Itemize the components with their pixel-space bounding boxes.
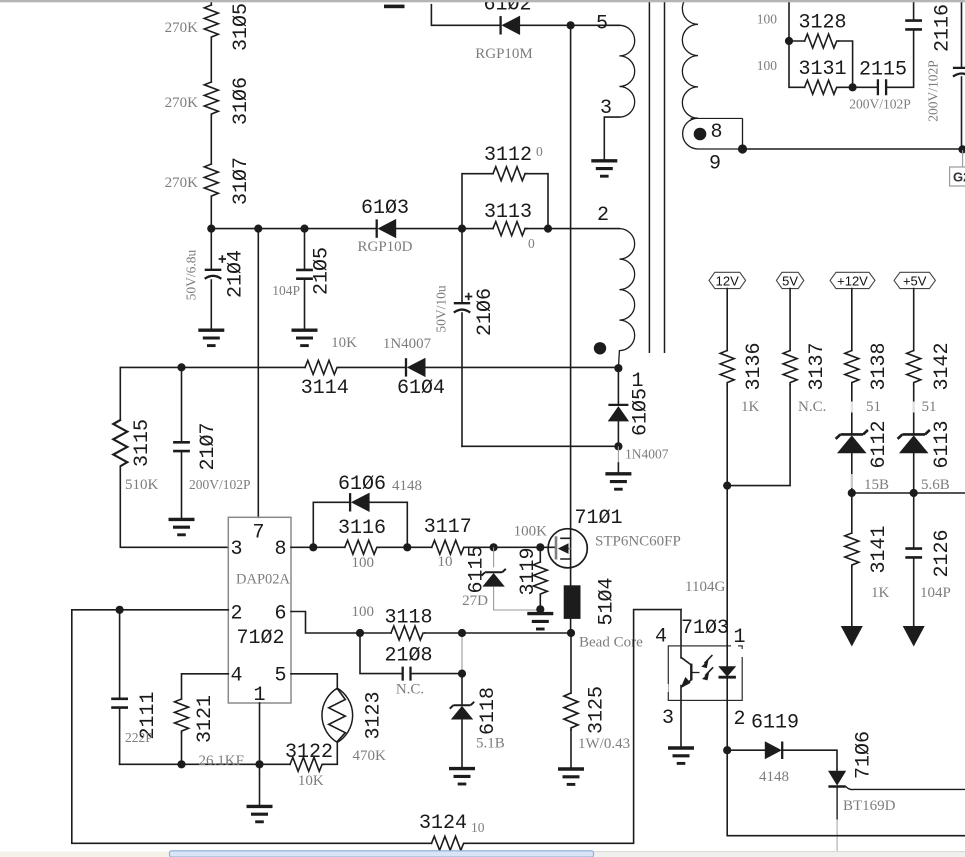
wire: pin2 net long <box>72 610 681 844</box>
svg-text:3131: 3131 <box>798 58 846 81</box>
svg-text:6118: 6118 <box>477 687 500 735</box>
svg-text:21Ø4: 21Ø4 <box>225 250 248 298</box>
resistor R3142 <box>913 289 915 434</box>
node dot <box>309 543 317 551</box>
svg-text:222P: 222P <box>125 730 153 745</box>
wire: 2106 bottom row <box>462 445 618 447</box>
svg-text:2115: 2115 <box>859 59 907 82</box>
svg-text:0: 0 <box>536 144 543 159</box>
ground <box>558 769 584 784</box>
svg-text:100: 100 <box>757 12 778 27</box>
svg-text:0: 0 <box>528 236 535 251</box>
node dot <box>723 746 731 754</box>
zener D6115 <box>493 547 495 567</box>
svg-text:3117: 3117 <box>424 516 472 539</box>
resistor R3122 <box>290 757 324 771</box>
resistor R3115 <box>120 367 228 547</box>
svg-text:21Ø7: 21Ø7 <box>197 422 220 470</box>
node dot <box>614 442 622 450</box>
wire: drain vertical <box>570 25 572 538</box>
svg-text:61Ø4: 61Ø4 <box>397 377 445 400</box>
svg-text:71Ø1: 71Ø1 <box>575 507 623 530</box>
node dot <box>490 543 498 551</box>
resistor R3105 <box>204 5 218 39</box>
svg-text:4148: 4148 <box>392 478 422 494</box>
svg-text:7: 7 <box>253 522 265 545</box>
diode D6102 <box>501 16 520 35</box>
svg-text:1K: 1K <box>871 585 890 601</box>
svg-text:STP6NC60FP: STP6NC60FP <box>595 534 681 550</box>
node dot <box>910 489 918 497</box>
wire gap artifact +5V <box>913 402 915 413</box>
resistor R3116 <box>345 540 379 554</box>
diode D6105 <box>617 368 619 404</box>
resistor R3119 <box>539 547 541 609</box>
ground <box>668 748 694 763</box>
zener D6118 <box>461 674 463 705</box>
wire: bottom row of 7102 <box>120 742 338 764</box>
node dot <box>356 629 364 637</box>
scrollbar blue bar <box>170 851 594 857</box>
resistor R3136 <box>726 289 728 486</box>
node dot <box>723 482 731 490</box>
net flag 12V <box>709 272 746 288</box>
svg-text:3116: 3116 <box>338 517 386 540</box>
svg-text:61Ø3: 61Ø3 <box>361 197 409 220</box>
svg-text:2126: 2126 <box>931 529 954 577</box>
LED of optocoupler <box>726 486 728 667</box>
svg-text:270K: 270K <box>165 175 199 191</box>
net label G2 <box>962 150 964 167</box>
resistor R3131 <box>789 41 853 87</box>
diode D6104 <box>406 358 426 377</box>
svg-text:200V/102P: 200V/102P <box>849 97 911 112</box>
svg-text:270K: 270K <box>165 20 199 36</box>
svg-text:61Ø2: 61Ø2 <box>483 0 531 17</box>
wire: snubber network left vertical <box>788 0 790 41</box>
zener D6112 <box>836 430 868 453</box>
svg-text:3114: 3114 <box>301 377 349 400</box>
wire: 6102 snubber net <box>431 5 619 26</box>
svg-text:2: 2 <box>597 204 609 227</box>
wire: pin 8 tap <box>691 117 743 119</box>
wire: 15B row <box>852 492 965 494</box>
svg-text:510K: 510K <box>125 477 159 493</box>
net flag 5V <box>776 272 803 288</box>
svg-text:5: 5 <box>596 13 608 36</box>
capacitor C2107 <box>181 367 183 441</box>
svg-text:1N4007: 1N4007 <box>383 336 432 352</box>
svg-text:470K: 470K <box>353 748 387 764</box>
node dot <box>207 225 215 233</box>
svg-text:104P: 104P <box>920 585 951 601</box>
node dot <box>458 629 466 637</box>
svg-text:21Ø6: 21Ø6 <box>474 288 497 336</box>
svg-text:21Ø8: 21Ø8 <box>384 645 432 668</box>
wire: resistor chain vertical <box>210 0 212 229</box>
svg-text:RGP10D: RGP10D <box>357 239 412 255</box>
resistor R3125 <box>570 633 572 768</box>
node dot <box>177 760 185 768</box>
node dot <box>785 37 793 45</box>
wire: pin7 vertical <box>257 229 259 518</box>
svg-text:21Ø5: 21Ø5 <box>311 247 334 295</box>
node dot <box>848 489 856 497</box>
off-page arrow <box>841 626 863 647</box>
ground <box>449 769 475 784</box>
diode D6119 <box>727 749 765 751</box>
capacitor C2106 electrolytic <box>461 229 463 303</box>
svg-text:200V/102P: 200V/102P <box>189 477 251 492</box>
diode D6103 <box>377 219 397 238</box>
ground <box>292 330 318 345</box>
light arrows <box>704 655 712 663</box>
transformer primary winding top (pins 5-3) <box>619 25 634 117</box>
svg-text:50V/6.8u: 50V/6.8u <box>184 249 199 300</box>
capacitor C2116 <box>905 21 922 30</box>
wire: top junction row <box>211 228 619 230</box>
svg-text:15B: 15B <box>864 477 889 493</box>
svg-text:71Ø2: 71Ø2 <box>237 627 285 650</box>
wire: 3114 row <box>120 366 618 368</box>
zener D6113 <box>898 430 930 453</box>
svg-text:27D: 27D <box>462 593 488 609</box>
capacitor C2108 <box>360 633 462 674</box>
svg-text:51: 51 <box>922 399 937 415</box>
ground <box>527 614 553 629</box>
svg-text:200V/102P: 200V/102P <box>926 60 941 122</box>
transistor Q7101 MOSFET <box>548 529 587 568</box>
svg-text:9: 9 <box>709 153 721 176</box>
node dot <box>458 225 466 233</box>
svg-text:3: 3 <box>231 538 243 561</box>
transformer primary winding bottom (pins 2-1) <box>618 229 634 369</box>
svg-text:61Ø6: 61Ø6 <box>338 473 386 496</box>
diode D6106 <box>350 493 370 512</box>
svg-text:51Ø4: 51Ø4 <box>596 577 619 625</box>
svg-text:100: 100 <box>351 555 374 571</box>
svg-text:3: 3 <box>662 707 674 730</box>
svg-text:71Ø3: 71Ø3 <box>681 617 729 640</box>
ground <box>591 161 617 176</box>
resistor R3128 <box>789 41 853 87</box>
svg-text:31Ø6: 31Ø6 <box>230 77 253 125</box>
resistor R3121 <box>182 674 229 765</box>
resistor R3114 <box>305 360 339 374</box>
wire: source <box>570 559 572 585</box>
svg-text:3: 3 <box>600 97 612 120</box>
svg-text:6119: 6119 <box>751 712 799 735</box>
svg-text:26.1KF: 26.1KF <box>199 753 244 769</box>
capacitor C2105 <box>304 229 306 269</box>
svg-text:2: 2 <box>231 603 243 626</box>
node dot <box>536 605 544 613</box>
node dot <box>567 629 575 637</box>
polarity dot <box>594 342 606 354</box>
svg-text:G2: G2 <box>953 170 965 185</box>
node dot <box>614 364 622 372</box>
svg-text:3113: 3113 <box>484 201 532 224</box>
svg-text:3124: 3124 <box>419 812 467 835</box>
svg-text:3121: 3121 <box>194 695 217 743</box>
ferrite bead L5104 <box>564 585 581 619</box>
svg-text:DAP02A: DAP02A <box>236 572 291 588</box>
svg-text:1104G: 1104G <box>685 579 725 595</box>
capacitor C2126 <box>913 493 915 548</box>
svg-text:3118: 3118 <box>384 607 432 630</box>
svg-text:31Ø5: 31Ø5 <box>230 3 253 51</box>
resistor R3138 <box>851 289 853 434</box>
svg-text:2: 2 <box>734 708 746 731</box>
wire: bottom right row <box>727 750 965 836</box>
svg-text:1W/0.43: 1W/0.43 <box>578 736 630 752</box>
svg-text:12V: 12V <box>716 273 739 288</box>
svg-text:6115: 6115 <box>466 545 489 593</box>
svg-text:8: 8 <box>711 121 723 144</box>
svg-text:104P: 104P <box>272 283 300 298</box>
wire: 6106 bypass loop <box>313 502 407 547</box>
resistor R3107 <box>204 164 218 198</box>
capacitor C2117 electrolytic at edge <box>961 0 963 67</box>
resistor R3117 <box>432 540 466 554</box>
wire: pin1 ground <box>259 703 261 805</box>
svg-text:10K: 10K <box>298 773 324 789</box>
svg-text:8: 8 <box>275 538 287 561</box>
svg-text:3115: 3115 <box>131 419 154 467</box>
svg-text:3123: 3123 <box>363 691 386 739</box>
capacitor C2115 <box>853 30 914 88</box>
svg-text:10K: 10K <box>331 335 357 351</box>
svg-text:3128: 3128 <box>798 12 846 35</box>
svg-text:270K: 270K <box>165 95 199 111</box>
svg-text:51: 51 <box>866 399 881 415</box>
net flag +12V <box>830 272 875 288</box>
svg-text:10: 10 <box>438 554 453 570</box>
node dot <box>177 363 185 371</box>
svg-text:BT169D: BT169D <box>843 798 896 814</box>
optocoupler U7103 <box>680 610 682 658</box>
svg-text:6112: 6112 <box>868 420 891 468</box>
thermistor R3123 <box>291 674 337 689</box>
svg-text:3137: 3137 <box>806 342 829 390</box>
node dot <box>567 21 575 29</box>
wire: pin6 net <box>291 612 571 634</box>
svg-text:6: 6 <box>275 603 287 626</box>
node dot <box>255 760 263 768</box>
node dot <box>958 145 965 153</box>
svg-text:3122: 3122 <box>285 741 333 764</box>
capacitor C2111 <box>119 610 121 698</box>
wire: 3112 bypass loop <box>462 174 548 229</box>
node dot <box>254 225 262 233</box>
svg-text:5: 5 <box>275 665 287 688</box>
svg-text:5.6B: 5.6B <box>921 477 950 493</box>
node dot <box>403 543 411 551</box>
svg-text:1K: 1K <box>741 399 760 415</box>
node dot <box>544 225 552 233</box>
minus dash label <box>384 5 405 9</box>
resistor R3106 <box>204 82 218 116</box>
svg-text:+12V: +12V <box>837 273 868 288</box>
pin 3 wire <box>604 117 619 160</box>
bottom window strip <box>0 852 965 857</box>
polarity dot pin8 <box>694 128 707 141</box>
node dot <box>300 225 308 233</box>
svg-text:71Ø6: 71Ø6 <box>853 731 876 779</box>
svg-text:3125: 3125 <box>586 686 609 734</box>
ground <box>198 330 224 345</box>
wire gap artifact +12V <box>851 402 853 413</box>
resistor R3113 <box>493 222 527 236</box>
transformer core <box>649 0 664 353</box>
ground <box>247 806 273 821</box>
node dot <box>738 144 747 153</box>
svg-text:5V: 5V <box>782 273 798 288</box>
svg-text:100: 100 <box>351 604 374 620</box>
svg-text:3141: 3141 <box>868 525 891 573</box>
svg-text:+5V: +5V <box>903 273 927 288</box>
svg-text:100: 100 <box>757 58 778 73</box>
svg-text:4: 4 <box>655 626 667 649</box>
svg-text:4: 4 <box>231 665 243 688</box>
resistor R3112 <box>493 167 527 181</box>
svg-text:10: 10 <box>471 820 485 835</box>
node dot <box>849 83 857 91</box>
svg-text:50V/10u: 50V/10u <box>434 285 449 333</box>
svg-text:3136: 3136 <box>743 342 766 390</box>
svg-text:100K: 100K <box>514 524 548 540</box>
svg-text:3112: 3112 <box>484 144 532 167</box>
svg-text:3138: 3138 <box>868 342 891 390</box>
resistor R3124 <box>432 836 466 850</box>
capacitor C2104 <box>210 229 212 269</box>
svg-text:N.C.: N.C. <box>396 682 424 698</box>
wire: secondary output row <box>743 148 963 150</box>
svg-text:3119: 3119 <box>517 547 540 595</box>
net flag +5V <box>894 272 935 288</box>
ground <box>169 519 195 534</box>
window top border <box>0 0 965 2</box>
svg-text:N.C.: N.C. <box>798 399 826 415</box>
node dot <box>116 606 124 614</box>
resistor R3137 <box>727 289 790 486</box>
svg-text:4148: 4148 <box>759 769 789 785</box>
svg-text:2116: 2116 <box>932 4 955 52</box>
IC U7102 DAP02A box <box>228 517 291 703</box>
svg-text:3142: 3142 <box>931 342 954 390</box>
svg-text:RGP10M: RGP10M <box>475 46 533 62</box>
resistor R3141 <box>851 493 853 627</box>
ground <box>605 474 631 489</box>
phototransistor <box>681 657 691 665</box>
resistor R3118 <box>391 626 425 640</box>
svg-text:1N4007: 1N4007 <box>625 447 669 462</box>
wire: pin8 row <box>291 546 556 548</box>
svg-text:5.1B: 5.1B <box>476 736 505 752</box>
node dot <box>458 670 466 678</box>
off-page arrow <box>903 626 925 647</box>
svg-text:6113: 6113 <box>931 420 954 468</box>
svg-text:61Ø5: 61Ø5 <box>630 388 653 436</box>
svg-text:1: 1 <box>734 626 746 649</box>
transformer secondary winding (pins 8-9) <box>682 0 742 149</box>
node dot <box>536 543 544 551</box>
thyristor D7106 BT169D <box>828 771 846 786</box>
svg-text:31Ø7: 31Ø7 <box>230 157 253 205</box>
